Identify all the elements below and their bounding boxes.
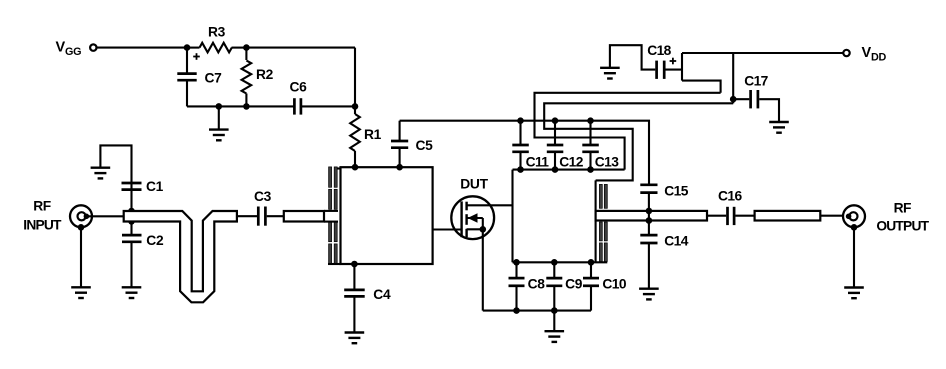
capacitor C5 [399, 148, 401, 167]
wire C18 left to ground [610, 45, 655, 69]
DUT source bottom bar [467, 228, 483, 230]
capacitor C2 [130, 221, 132, 234]
input stub bars lower [324, 221, 338, 223]
svg-text:INPUT: INPUT [23, 217, 62, 232]
svg-text:V: V [862, 45, 872, 61]
DUT drain lead [467, 204, 513, 206]
ground below C7 rail [218, 106, 220, 129]
junction dot C11 bottom [517, 166, 524, 173]
svg-text:C8: C8 [528, 277, 546, 292]
capacitor C17 [733, 98, 749, 100]
wire down from gate rail to R1 [354, 48, 356, 114]
node VDD terminal [843, 50, 849, 56]
wire C8 top rail [513, 261, 608, 263]
svg-text:C11: C11 [526, 155, 550, 170]
junction dot DUT source [480, 226, 487, 233]
capacitor C15 [640, 183, 657, 186]
capacitor C3 [237, 215, 257, 217]
ground left of C18 [600, 68, 620, 79]
junction dot C9 bottom ground tee [551, 307, 558, 314]
capacitor C8 [515, 262, 517, 277]
svg-text:C7: C7 [205, 71, 223, 86]
svg-text:GG: GG [65, 46, 81, 58]
resistor R3 [187, 47, 200, 49]
svg-text:C16: C16 [718, 189, 742, 204]
ground below C9 [553, 311, 555, 331]
capacitor C7 [186, 48, 188, 73]
svg-text:C3: C3 [254, 189, 272, 204]
wire connector to ground [80, 227, 82, 287]
junction dot C13 top [587, 117, 594, 124]
svg-text:C6: C6 [289, 80, 307, 95]
wire source bottom rail [483, 310, 591, 312]
wire connector to microstrip [87, 215, 124, 217]
ground below RF INPUT [71, 287, 91, 298]
junction dot C4 at box bottom [351, 261, 358, 268]
wire upper bars to box [337, 167, 340, 169]
junction dot ground tee [216, 103, 223, 110]
svg-text:C9: C9 [565, 277, 583, 292]
junction dot C15 on strip top [646, 208, 653, 215]
ground below RF OUTPUT [844, 288, 864, 299]
C18 plus sign [670, 60, 677, 62]
junction dot C12 bottom [552, 166, 559, 173]
node VGG terminal [90, 44, 96, 50]
svg-text:C12: C12 [559, 155, 583, 170]
wire strip to output connector [820, 215, 847, 217]
wire VDD feed line 2 to output stub [544, 103, 733, 180]
svg-text:OUTPUT: OUTPUT [876, 219, 929, 234]
capacitor C18 [655, 61, 658, 79]
junction dot output connector ground [851, 224, 858, 231]
RF OUTPUT connector [843, 205, 865, 227]
junction dot C14 on strip bottom [646, 217, 653, 224]
wire VDD node to line1 [682, 81, 721, 93]
junction dot C9 top [551, 259, 558, 266]
capacitor C10 [590, 262, 592, 277]
svg-text:C17: C17 [744, 74, 768, 89]
junction dot R1 at box top [352, 164, 359, 171]
output stub bars lower [599, 222, 607, 262]
wire through strip [648, 211, 650, 221]
wire gate from box [433, 228, 462, 230]
svg-text:R2: R2 [256, 67, 274, 82]
capacitor C13 [589, 121, 591, 145]
svg-text:RF: RF [894, 200, 911, 215]
capacitor C9 [553, 262, 555, 277]
junction dot C17 node [730, 96, 737, 103]
resistor R1 [350, 114, 360, 151]
capacitor C6 [293, 98, 296, 114]
svg-text:V: V [56, 39, 66, 55]
junction dot C2 on trace bottom [128, 218, 135, 225]
microstrip line after C3 [284, 211, 324, 222]
svg-text:DD: DD [871, 52, 886, 64]
capacitor C16 [707, 215, 726, 217]
svg-text:C18: C18 [647, 43, 671, 58]
capacitor C1 with grounded top [130, 184, 132, 212]
wire VGG to R3 junction [97, 47, 187, 49]
capacitor C14 [648, 221, 650, 235]
junction dot R3 right / R2 top [243, 44, 250, 51]
ground below C2 [122, 287, 142, 298]
C7 plus sign [193, 56, 200, 58]
junction dot C5 at box top [396, 164, 403, 171]
wire VDD feed line 1 to C11-C13 bottom rail [535, 93, 721, 170]
ground below C4 [345, 333, 365, 344]
wire output connector to ground [853, 227, 855, 287]
capacitor C12 [554, 121, 556, 145]
ground below C14 [639, 289, 659, 300]
svg-text:C14: C14 [664, 233, 688, 248]
junction dot C13 bottom [587, 166, 594, 173]
svg-text:C2: C2 [146, 233, 164, 248]
wire lower bars to box bottom [328, 263, 341, 265]
junction dot C8 top [513, 259, 520, 266]
junction dot R2 bottom [243, 103, 250, 110]
wire VDD horizontal [682, 52, 843, 54]
resistor R2 [245, 48, 247, 60]
wire output box left edge [511, 170, 513, 263]
microstrip output line [596, 211, 707, 221]
wire DUT source down [482, 229, 484, 310]
svg-text:C4: C4 [373, 287, 391, 302]
input matching network box [341, 167, 433, 264]
junction dot C11 top [517, 117, 524, 124]
wire output stub feed vertical [595, 180, 597, 262]
microstrip hairpin stub line [124, 211, 237, 302]
svg-text:R1: R1 [364, 127, 382, 142]
junction dot C8 bottom [513, 307, 520, 314]
ground above C1 [91, 168, 111, 179]
microstrip line before output connector [755, 211, 821, 221]
svg-text:C5: C5 [416, 138, 434, 153]
DUT gate bar [460, 201, 462, 237]
wire C7 bottom rail to C6 [187, 105, 294, 107]
svg-text:C1: C1 [146, 179, 164, 194]
DUT body arrow [467, 217, 483, 219]
junction dot C12 top [552, 117, 559, 124]
transistor DUT (MOSFET) [451, 196, 494, 239]
svg-text:R3: R3 [208, 24, 226, 39]
DUT channel bar dashed [465, 202, 467, 211]
junction dot C10 top [588, 259, 595, 266]
wire C11-C13 bottom rail [513, 169, 625, 171]
wire C18 right to VDD node [666, 69, 683, 71]
input stub bars upper [324, 210, 338, 212]
svg-text:C15: C15 [664, 183, 688, 198]
svg-text:C13: C13 [595, 155, 619, 170]
RF INPUT connector [70, 205, 92, 227]
output stub bars upper [599, 184, 607, 208]
wire VDD down to C17 node [732, 53, 734, 103]
capacitor C4 [353, 264, 355, 289]
wire top rail C5 to C15 column [400, 121, 649, 185]
junction dot connector ground [78, 224, 85, 231]
junction dot C1 on trace top [128, 208, 135, 215]
wire VDD node vertical [681, 53, 683, 81]
svg-text:C10: C10 [602, 277, 626, 292]
junction dot C6/R1 [352, 103, 359, 110]
wire R3 junction to R1 column [246, 47, 355, 49]
svg-text:RF: RF [33, 198, 50, 213]
ground below C17 [769, 122, 789, 133]
capacitor C11 [519, 121, 521, 145]
junction dot C7/R3 top [184, 44, 191, 51]
svg-text:DUT: DUT [460, 177, 488, 192]
